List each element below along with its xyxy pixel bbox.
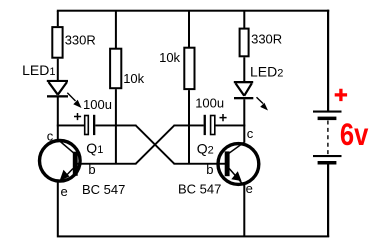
wire: rail to R1 [57, 11, 59, 26]
wire: crossover to C2 negative plate [174, 125, 204, 127]
resistor R1 [52, 27, 62, 58]
svg-text:6v: 6v [340, 116, 369, 152]
wire: rail to R4 [243, 11, 245, 28]
wire: rail to R3 [188, 11, 190, 47]
svg-text:e: e [61, 184, 68, 199]
svg-text:c: c [47, 129, 54, 144]
capacitor C1 100u [85, 115, 96, 135]
wire: R1 to LED1 [57, 59, 59, 80]
LED2 indicator arrow [257, 97, 269, 110]
svg-text:Q1: Q1 [86, 140, 103, 156]
wire: crossover to Q2 base [174, 163, 226, 165]
svg-text:100u: 100u [83, 97, 112, 112]
battery plus label (red) [335, 89, 347, 101]
wire: Q2 emitter to ground rail [243, 184, 245, 236]
transistor Q1 BC547 [40, 140, 81, 182]
wire: Q1 collector node to C1 positive plate [57, 125, 84, 127]
wire: R3 to Q2 base [188, 90, 190, 164]
wire: C2 to Q2 collector node [216, 125, 246, 127]
svg-text:c: c [247, 126, 254, 141]
LED2 [234, 81, 254, 99]
wire: right rail upper (battery positive lead) [327, 10, 329, 112]
svg-text:b: b [88, 162, 95, 177]
resistor R4 [240, 29, 249, 57]
svg-text:330R: 330R [251, 32, 282, 47]
LED1 [47, 80, 68, 98]
battery B1 6v [313, 111, 342, 165]
wire: top supply rail [57, 10, 329, 12]
svg-text:330R: 330R [65, 32, 96, 47]
svg-text:LED1: LED1 [22, 62, 55, 78]
wire: C1 to crossover [95, 125, 136, 127]
wire: crossover diagonal C1 to Q2 base [136, 126, 174, 164]
svg-text:Q2: Q2 [197, 141, 214, 157]
wire: R4 to LED2 [243, 57, 245, 81]
svg-text:BC 547: BC 547 [178, 181, 221, 196]
svg-text:BC 547: BC 547 [82, 182, 125, 197]
svg-text:100u: 100u [195, 96, 224, 111]
resistor R2 [110, 49, 121, 88]
svg-text:e: e [246, 181, 253, 196]
svg-text:10k: 10k [159, 50, 180, 65]
wire: right rail lower (battery negative lead) [327, 164, 329, 237]
LED1 indicator arrow [67, 93, 81, 108]
wire: LED2 to Q2 collector [243, 99, 245, 143]
wire: Q1 emitter to ground rail [57, 181, 59, 236]
wire: rail to R2 [115, 11, 117, 48]
svg-text:b: b [206, 162, 213, 177]
wire: Q1 base to crossover [77, 163, 137, 165]
wire: R2 to Q1 base [115, 89, 117, 164]
transistor Q2 BC547 [218, 143, 259, 186]
wire: crossover diagonal Q1 base to C2 [136, 126, 174, 164]
wire: bottom ground rail [57, 235, 329, 237]
wire: LED1 to Q1 collector [57, 98, 59, 141]
resistor R3 [184, 48, 194, 89]
svg-text:10k: 10k [123, 71, 144, 86]
label C1 polarity plus [74, 113, 81, 120]
label C2 polarity plus [220, 114, 227, 121]
svg-text:LED2: LED2 [250, 64, 283, 80]
capacitor C2 100u [204, 115, 215, 135]
